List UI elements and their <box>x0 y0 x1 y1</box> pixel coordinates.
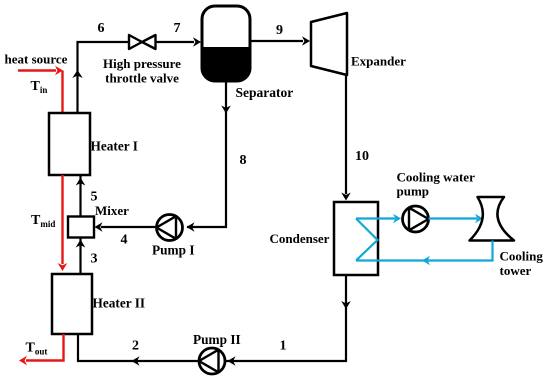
condenser <box>334 202 378 275</box>
wire: expander to condenser (line 10) <box>341 75 351 201</box>
heater II <box>52 274 92 334</box>
heat source red supply: arrow into heater I column <box>18 66 63 113</box>
wire: separator bottom to pump I (line 8) <box>187 81 231 232</box>
svg-text:heat source: heat source <box>5 52 68 67</box>
pump II <box>199 348 225 374</box>
svg-text:3: 3 <box>91 252 98 267</box>
cooling water pump <box>403 206 429 232</box>
high pressure throttle valve <box>129 35 156 49</box>
svg-text:pump: pump <box>397 184 430 199</box>
svg-text:9: 9 <box>276 23 283 38</box>
svg-text:throttle valve: throttle valve <box>105 71 179 86</box>
svg-text:8: 8 <box>240 153 247 168</box>
svg-text:1: 1 <box>280 339 287 354</box>
wire: mixer top to heater I bottom (line 5) <box>76 175 86 217</box>
wire: heater II top to mixer bottom (line 3) <box>76 238 86 274</box>
svg-text:Cooling water: Cooling water <box>397 170 476 185</box>
svg-text:Mixer: Mixer <box>95 203 129 218</box>
wire: pump I to mixer (line 4) <box>95 222 157 232</box>
pump I <box>157 215 183 241</box>
svg-text:5: 5 <box>91 190 98 205</box>
wire: condenser to cooling water pump (cyan supply) <box>356 214 401 224</box>
mixer <box>68 217 94 238</box>
wire: cooling tower return to condenser (cyan) <box>356 241 493 266</box>
svg-text:Condenser: Condenser <box>270 231 330 246</box>
svg-text:Heater II: Heater II <box>93 296 146 311</box>
cooling water coil inside condenser <box>356 219 378 261</box>
separator vessel <box>202 6 250 81</box>
svg-text:Expander: Expander <box>351 54 406 69</box>
wire: pump to cooling tower (cyan) <box>429 214 484 224</box>
svg-text:10: 10 <box>355 149 369 164</box>
svg-text:Heater I: Heater I <box>91 139 138 154</box>
svg-text:Pump II: Pump II <box>193 332 241 347</box>
wire: heater I top to throttle valve (line 6) <box>72 42 129 113</box>
cooling tower <box>470 197 515 241</box>
expander (turbine) <box>311 13 347 75</box>
svg-text:6: 6 <box>98 21 105 36</box>
svg-text:4: 4 <box>121 233 128 248</box>
wire: valve to separator (line 7) <box>156 37 202 47</box>
red wire: heater I to heater II (Tmid) <box>58 175 68 271</box>
svg-text:tower: tower <box>500 263 532 278</box>
heater I <box>49 113 90 175</box>
svg-text:2: 2 <box>132 339 139 354</box>
svg-text:7: 7 <box>174 21 181 36</box>
wire: separator to expander (line 9) <box>250 36 310 46</box>
svg-text:High pressure: High pressure <box>103 56 181 71</box>
svg-text:Cooling: Cooling <box>500 249 544 264</box>
svg-text:Separator: Separator <box>236 85 294 100</box>
red wire: heater II out (Tout) <box>19 334 64 365</box>
svg-text:Pump I: Pump I <box>152 243 195 258</box>
wire: condenser bottom to heater II (lines 1 and 2) <box>78 275 351 366</box>
